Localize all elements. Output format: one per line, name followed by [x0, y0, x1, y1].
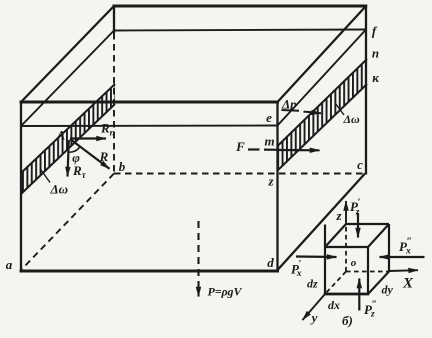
svg-text:X: X — [402, 276, 414, 292]
svg-text:φ: φ — [72, 150, 80, 165]
svg-text:Δp: Δp — [281, 97, 297, 112]
svg-text:m: m — [264, 134, 274, 149]
svg-text:dz: dz — [307, 277, 318, 291]
svg-text:P=ρgV: P=ρgV — [208, 285, 243, 299]
svg-text:F: F — [235, 139, 245, 154]
svg-text:P′z: P′z — [350, 198, 360, 218]
svg-text:y: y — [310, 310, 318, 325]
svg-text:Δω: Δω — [50, 182, 69, 197]
svg-text:P′x: P′x — [291, 259, 302, 279]
svg-text:o: o — [351, 257, 357, 269]
svg-text:z: z — [267, 174, 274, 189]
svg-text:Δω: Δω — [343, 112, 361, 126]
svg-text:Rτ: Rτ — [72, 163, 87, 181]
svg-text:Rn: Rn — [100, 121, 115, 139]
svg-text:P″x: P″x — [399, 237, 412, 257]
svg-text:d: d — [267, 255, 274, 270]
svg-text:n: n — [372, 46, 379, 61]
svg-text:e: e — [266, 110, 272, 125]
svg-text:R: R — [99, 149, 109, 164]
svg-text:dy: dy — [382, 283, 394, 297]
svg-text:b: b — [119, 159, 126, 174]
svg-text:к: к — [372, 70, 379, 85]
svg-text:P″z: P″z — [364, 300, 377, 320]
svg-text:a: a — [6, 257, 13, 272]
svg-text:f: f — [372, 24, 378, 39]
svg-text:dx: dx — [328, 298, 340, 312]
svg-text:б): б) — [342, 313, 353, 328]
svg-text:c: c — [357, 157, 363, 172]
svg-text:A: A — [56, 128, 66, 143]
svg-text:z: z — [335, 208, 342, 223]
